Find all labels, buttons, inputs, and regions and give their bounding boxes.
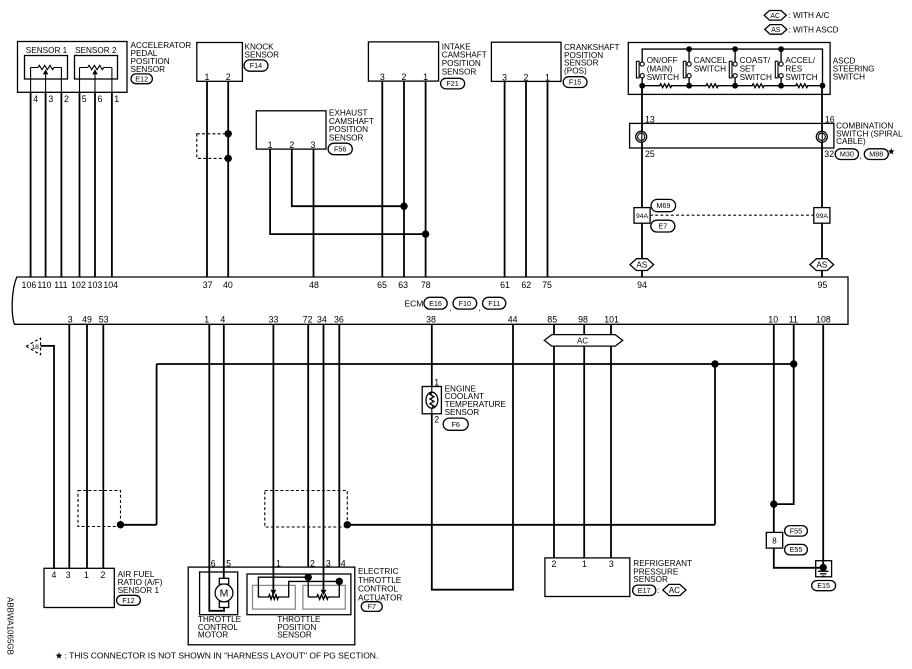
svg-text:6: 6 — [211, 558, 216, 568]
junction top bus cancel switch — [686, 46, 692, 52]
connector E7 — [651, 220, 675, 232]
wire cancel switch to resistor bus — [688, 78, 690, 86]
svg-text:94A: 94A — [636, 213, 649, 220]
svg-text:3: 3 — [502, 72, 507, 82]
svg-text:F21: F21 — [446, 79, 458, 88]
svg-text:95: 95 — [818, 280, 828, 290]
svg-text:E55: E55 — [790, 545, 803, 554]
connector F56 — [328, 143, 352, 155]
wire ASCD left output to combination switch pin13 — [641, 86, 643, 124]
connector E15 — [812, 581, 836, 591]
connector 94A box — [634, 208, 650, 224]
svg-text:M69: M69 — [656, 201, 670, 210]
svg-text:SWITCH: SWITCH — [740, 73, 772, 82]
TPS pin3 wiper arrow — [321, 590, 327, 596]
wire ECM 10 to joint connector 8 — [773, 324, 775, 532]
svg-text:10: 10 — [768, 315, 778, 325]
shield ground wire horizontal upper — [157, 363, 794, 365]
svg-text:78: 78 — [421, 280, 431, 290]
svg-text:110: 110 — [37, 280, 51, 290]
svg-text:2: 2 — [64, 94, 69, 104]
svg-text:4: 4 — [51, 570, 56, 580]
svg-text:F7: F7 — [368, 602, 376, 611]
junction shield wire to lower branch — [711, 360, 718, 367]
svg-text:1: 1 — [434, 377, 439, 387]
svg-text:2: 2 — [310, 558, 315, 568]
svg-text:F55: F55 — [790, 526, 802, 535]
svg-text:SWITCH: SWITCH — [647, 73, 679, 82]
wire motor pin6 to bottom brush — [209, 567, 224, 611]
svg-text:4: 4 — [33, 94, 38, 104]
svg-text:2: 2 — [552, 559, 557, 569]
svg-text:F6: F6 — [452, 420, 460, 429]
wire ECM 101 to refrigerant sensor pin3 — [610, 324, 612, 558]
svg-text:36: 36 — [334, 315, 344, 325]
wire ECM 36 to TPS pin4 — [338, 324, 340, 567]
svg-text:,: , — [859, 152, 861, 161]
shield ground wire horizontal to A/F shield — [121, 524, 157, 526]
svg-text:SWITCH: SWITCH — [833, 73, 865, 82]
knock sensor F14 box — [197, 43, 243, 82]
shield box knock sensor wiring — [197, 134, 228, 159]
svg-text:5: 5 — [226, 558, 231, 568]
svg-text:2: 2 — [289, 140, 294, 150]
wire AS to ECM 94 — [641, 271, 643, 278]
shield ground wire vertical left branch — [156, 364, 158, 525]
svg-text::: : — [657, 586, 659, 595]
ECM connector band — [12, 277, 848, 324]
wire ECM 33 to TPS pin1 — [272, 324, 274, 567]
svg-text:99A: 99A — [816, 213, 829, 220]
junction top bus accel/res switch — [778, 46, 784, 52]
junction on/off (main) switch resistor bus — [639, 83, 645, 89]
svg-text:25: 25 — [645, 149, 655, 159]
wire ECM 38 to coolant sensor pin1 — [431, 324, 433, 386]
svg-text:,: , — [449, 304, 451, 313]
svg-text:SENSOR: SENSOR — [442, 67, 477, 76]
junction shield to knock pin2 wire bottom — [225, 155, 232, 162]
svg-text:SWITCH: SWITCH — [785, 73, 817, 82]
svg-text:SENSOR: SENSOR — [633, 575, 668, 584]
TPS pin2 supply wire to both elements — [258, 577, 308, 597]
svg-text:F11: F11 — [488, 299, 500, 308]
potentiometer sensor 2 — [80, 65, 112, 69]
ASCD top bus wire — [642, 49, 822, 86]
svg-text:2: 2 — [402, 72, 407, 82]
svg-text:F15: F15 — [569, 78, 581, 87]
on/off (main) switch actuator bar — [636, 61, 639, 78]
throttle control motor box — [200, 572, 238, 615]
svg-text:CABLE): CABLE) — [836, 137, 866, 146]
throttle position sensor box — [247, 574, 351, 615]
svg-text:6: 6 — [98, 94, 103, 104]
potentiometer sensor 1 — [31, 65, 62, 69]
junction wires 10 and 11 — [770, 500, 777, 507]
wire off-page 18 to A/F sensor pin4 — [41, 346, 54, 568]
svg-text:SENSOR 1: SENSOR 1 — [118, 586, 160, 595]
cancel switch fixed contacts — [687, 62, 691, 66]
coast/set switch fixed contacts — [733, 62, 737, 66]
potentiometer sensor 1 wiper arrow — [43, 69, 48, 74]
svg-text:THROTTLE: THROTTLE — [358, 576, 402, 585]
wire connector 8 to ground E15 — [774, 548, 823, 568]
wire ECM 85 to refrigerant sensor pin2 — [553, 324, 555, 558]
svg-text:3: 3 — [380, 72, 385, 82]
svg-text:8: 8 — [772, 536, 777, 545]
svg-text:,: , — [479, 304, 481, 313]
connector F21 — [441, 78, 465, 89]
connector F7 — [361, 602, 382, 612]
svg-text:108: 108 — [816, 315, 831, 325]
accelerator pedal position sensor E12 outer box — [18, 42, 128, 93]
svg-text:3: 3 — [68, 315, 73, 325]
connector E55 — [785, 544, 808, 555]
svg-text:38: 38 — [426, 315, 436, 325]
shield ground wire vertical right branch — [714, 364, 716, 525]
refrigerant pressure sensor E17 box — [545, 558, 630, 597]
wire top bus to cancel switch contact — [688, 49, 690, 62]
svg-text:F14: F14 — [250, 61, 262, 70]
TPS element1 right end to pin4 line — [282, 581, 340, 597]
wire AS to ECM 95 — [821, 271, 823, 278]
accel/res switch actuator bar — [775, 61, 778, 78]
junction resistor bus right rail — [820, 83, 826, 89]
svg-text:1: 1 — [114, 94, 119, 104]
wire ECM 49 to A/F sensor pin1 — [86, 324, 88, 568]
svg-text:CANCEL: CANCEL — [694, 56, 728, 65]
svg-text:ELECTRIC: ELECTRIC — [358, 567, 399, 576]
junction cancel switch resistor bus — [686, 83, 692, 89]
svg-text:2: 2 — [226, 72, 231, 82]
wire top bus to accel/res switch contact — [780, 49, 782, 62]
svg-text:48: 48 — [309, 280, 319, 290]
potentiometer sensor 2 wiper arrow — [92, 69, 97, 74]
svg-text:44: 44 — [508, 315, 518, 325]
svg-text:SENSOR 1: SENSOR 1 — [26, 46, 68, 55]
svg-text:1: 1 — [204, 315, 209, 325]
svg-text:33: 33 — [269, 315, 279, 325]
svg-text:94: 94 — [637, 280, 647, 290]
TPS pin2 wire down to element2 resistor — [307, 577, 309, 597]
svg-text:SENSOR: SENSOR — [445, 408, 480, 417]
svg-text:AC: AC — [577, 336, 588, 345]
svg-text:103: 103 — [88, 280, 103, 290]
electric throttle control actuator F7 outer box — [188, 567, 355, 645]
svg-text:3: 3 — [609, 559, 614, 569]
wire APP pin3 to ECM 110 — [45, 74, 47, 92]
svg-text:MOTOR: MOTOR — [198, 631, 228, 640]
svg-text:37: 37 — [203, 280, 213, 290]
wire 99A to AS symbol — [821, 223, 823, 259]
ASCD steering switch outer box — [628, 43, 830, 95]
svg-text:34: 34 — [317, 315, 327, 325]
connector 99A box — [814, 208, 830, 224]
wire on/off (main) switch to resistor bus — [641, 78, 643, 86]
svg-text:18: 18 — [31, 344, 39, 351]
svg-text:98: 98 — [578, 315, 588, 325]
wire ECM 44 to coolant sensor pin2 via U-route — [432, 324, 513, 589]
ground symbol E15 — [816, 561, 832, 577]
svg-text:1: 1 — [423, 72, 428, 82]
svg-text:ON/OFF: ON/OFF — [647, 56, 678, 65]
svg-text:AS: AS — [771, 27, 781, 34]
wire 94A to AS symbol — [641, 223, 643, 259]
svg-text:F56: F56 — [334, 145, 346, 154]
option symbol AS left — [630, 259, 654, 271]
resistor between main and cancel switch — [642, 84, 689, 88]
option symbol AC for refrigerant sensor — [663, 584, 686, 595]
svg-text:3: 3 — [48, 94, 53, 104]
svg-text:M30: M30 — [840, 150, 854, 159]
coast/set switch actuator bar — [729, 61, 732, 78]
connector E12 — [131, 74, 152, 84]
junction TPS pin2 — [305, 574, 312, 581]
shield box A/F sensor wiring — [78, 491, 121, 527]
svg-text:SENSOR: SENSOR — [131, 65, 166, 74]
svg-text:CONTROL: CONTROL — [358, 585, 398, 594]
wire intake cam pin2 to ECM 63 — [403, 81, 405, 277]
accel/res switch fixed contacts — [779, 62, 783, 66]
svg-text:E16: E16 — [429, 299, 442, 308]
connector F6 — [443, 418, 468, 430]
wire intake cam pin1 to ECM 78 — [425, 81, 427, 277]
svg-text:ECM: ECM — [405, 299, 424, 309]
wire ECM 11 down and left to pin10 wire — [774, 324, 794, 504]
svg-text:4: 4 — [220, 315, 225, 325]
svg-text:F12: F12 — [122, 596, 134, 605]
resistor between coast/set and accel/res switch — [735, 84, 781, 88]
wire ECM 72 to TPS pin2 — [307, 324, 309, 567]
svg-text:2: 2 — [101, 570, 106, 580]
svg-text:SENSOR: SENSOR — [329, 134, 364, 143]
svg-text:: THIS CONNECTOR IS NOT SHOWN: : THIS CONNECTOR IS NOT SHOWN IN "HARNES… — [65, 650, 379, 660]
svg-text:1: 1 — [545, 72, 550, 82]
wire exhaust cam pin3 to ECM 48 — [313, 149, 315, 277]
svg-text:M88: M88 — [869, 150, 883, 159]
svg-text:1: 1 — [276, 558, 281, 568]
svg-text:: WITH A/C: : WITH A/C — [789, 11, 830, 20]
coolant sensor thermistor symbol — [431, 387, 433, 393]
svg-text:62: 62 — [521, 280, 531, 290]
APP sensor 1 inner box — [25, 56, 68, 80]
wire crank pin3 to ECM 61 — [504, 81, 506, 277]
wire APP pin1 to ECM 104 — [111, 68, 113, 93]
exhaust camshaft position sensor F56 box — [256, 111, 326, 149]
svg-text:COAST/: COAST/ — [740, 56, 771, 65]
air fuel ratio sensor F12 box — [44, 568, 114, 607]
wire through combination switch right — [821, 123, 823, 148]
connector F14 — [244, 60, 268, 71]
wire combination switch pin25 to connector 94A — [641, 148, 643, 208]
wire coast/set switch to resistor bus — [734, 78, 736, 86]
wire APP pin5 to ECM 102 — [79, 68, 81, 93]
svg-text:61: 61 — [500, 280, 510, 290]
wire APP pin2 to ECM 111 — [60, 68, 62, 93]
svg-text:49: 49 — [82, 315, 92, 325]
dashed link 94A to 99A — [650, 214, 814, 216]
TPS resistor element 1 — [265, 595, 281, 600]
svg-text:85: 85 — [547, 315, 557, 325]
wire crank pin2 to ECM 62 — [525, 81, 527, 277]
joint connector 8 box — [766, 532, 782, 548]
junction shield wire at ECM 11 wire — [790, 360, 797, 367]
svg-text:5: 5 — [82, 94, 87, 104]
wire APP pin4 to ECM 106 — [30, 68, 32, 93]
legend symbol AS : WITH ASCD — [765, 25, 787, 35]
svg-text:E12: E12 — [135, 74, 148, 83]
wire ECM 53 to A/F sensor pin2 — [102, 324, 104, 568]
wire knock pin2 to ECM 40 — [227, 81, 229, 277]
connector E17 — [633, 585, 656, 595]
svg-text:: WITH ASCD: : WITH ASCD — [789, 25, 839, 34]
wire top bus to coast/set switch contact — [734, 49, 736, 62]
motor M symbol — [215, 578, 233, 607]
svg-text:M: M — [220, 588, 229, 600]
combination switch spiral cable box — [630, 123, 834, 148]
svg-text:E17: E17 — [638, 586, 651, 595]
spiral cable symbol left — [636, 131, 647, 142]
svg-text:SENSOR 2: SENSOR 2 — [75, 46, 117, 55]
shield box TPS wiring — [265, 491, 348, 528]
svg-text:1: 1 — [84, 570, 89, 580]
svg-text:2: 2 — [524, 72, 529, 82]
wire crank pin1 to ECM 75 — [547, 81, 549, 277]
shield ground wire horizontal to TPS shield — [347, 524, 715, 526]
svg-text:SENSOR: SENSOR — [245, 50, 280, 59]
wire exhaust cam pin2 down — [292, 149, 404, 206]
wire ECM 108 to ground E15 — [822, 324, 824, 567]
junction accel/res switch resistor bus — [778, 83, 784, 89]
svg-text:65: 65 — [377, 280, 387, 290]
engine coolant temperature sensor F6 box — [422, 387, 441, 414]
on/off (main) switch fixed contacts — [640, 62, 644, 66]
svg-text:75: 75 — [542, 280, 552, 290]
legend symbol AC : WITH A/C — [764, 11, 786, 21]
svg-text:1: 1 — [582, 559, 587, 569]
svg-text:13: 13 — [645, 115, 655, 125]
svg-text:111: 111 — [54, 280, 67, 290]
svg-text:104: 104 — [103, 280, 118, 290]
TPS element 2 frame — [303, 585, 345, 609]
wire ECM 3 to A/F sensor pin3 — [68, 324, 70, 568]
wire intake cam pin3 to ECM 65 — [381, 81, 383, 277]
connector F12 — [117, 595, 141, 605]
crankshaft position sensor POS F15 box — [491, 42, 561, 81]
svg-text:16: 16 — [825, 115, 835, 125]
APP sensor 2 inner box — [75, 56, 118, 80]
svg-text:AS: AS — [816, 261, 827, 270]
svg-text:F10: F10 — [459, 299, 471, 308]
TPS pin1 wiper arrow — [271, 590, 277, 596]
note about connector not shown in harness layout — [55, 652, 62, 659]
connector M88 — [864, 149, 888, 160]
svg-text:2: 2 — [434, 415, 439, 425]
wire ECM 4 to throttle motor pin5 — [223, 324, 225, 567]
svg-text:11: 11 — [789, 315, 798, 325]
svg-text:63: 63 — [398, 280, 408, 290]
option symbol AC on refrigerant wires — [544, 335, 622, 347]
junction top bus coast/set switch — [732, 46, 738, 52]
svg-text:3: 3 — [311, 140, 316, 150]
svg-text:32: 32 — [824, 149, 834, 159]
option symbol AS right — [810, 259, 834, 271]
wire knock pin1 to ECM 37 — [206, 81, 208, 277]
svg-text:(POS): (POS) — [564, 67, 587, 76]
wire ASCD right output to combination switch pin16 — [821, 86, 823, 124]
svg-text:106: 106 — [22, 280, 37, 290]
junction A/F shield to ground wire — [117, 521, 124, 528]
TPS resistor element 2 — [313, 595, 332, 600]
wire motor pin5 to top brush — [223, 567, 225, 578]
wire exhaust cam pin1 down — [270, 149, 426, 234]
svg-text:AC: AC — [669, 586, 680, 595]
spiral cable symbol right — [816, 131, 827, 142]
connector M69 — [651, 199, 676, 211]
wire accel/res switch to resistor bus — [780, 78, 782, 86]
wire through combination switch left — [641, 123, 643, 148]
junction exhaust cam pin1 with intake cam pin1 wire — [422, 230, 429, 237]
connector F55 — [785, 526, 808, 537]
svg-text:102: 102 — [71, 280, 86, 290]
wire combination switch pin32 to connector 99A — [821, 148, 823, 208]
resistor between accel/res switch and right rail — [781, 84, 822, 88]
junction shield to knock pin2 wire top — [225, 130, 232, 137]
wire ECM 98 to refrigerant sensor pin1 — [583, 324, 585, 558]
svg-text:AS: AS — [636, 261, 647, 270]
svg-text:1: 1 — [205, 72, 210, 82]
svg-text:72: 72 — [303, 315, 313, 325]
TPS element 1 frame — [253, 585, 296, 609]
wire APP pin6 to ECM 103 — [94, 74, 96, 92]
svg-text:AC: AC — [770, 13, 780, 20]
svg-text:40: 40 — [223, 280, 233, 290]
svg-text:4: 4 — [341, 558, 346, 568]
svg-text:E7: E7 — [658, 222, 667, 231]
svg-text:101: 101 — [604, 315, 619, 325]
svg-text:3: 3 — [326, 558, 331, 568]
junction exhaust cam pin2 with intake cam pin2 wire — [400, 203, 407, 210]
resistor between cancel and coast/set switch — [689, 84, 735, 88]
svg-text:E15: E15 — [817, 581, 830, 590]
svg-text:ABBWA1065GB: ABBWA1065GB — [6, 597, 15, 655]
svg-text:1: 1 — [268, 140, 273, 150]
junction TPS pin4 — [336, 578, 343, 585]
junction TPS shield to ground wire — [344, 521, 351, 528]
TPS element2 right end to pin4 — [332, 581, 339, 597]
off-page connector 18 triangle — [26, 338, 41, 355]
svg-text:53: 53 — [99, 315, 109, 325]
svg-text:SWITCH: SWITCH — [694, 65, 726, 74]
connector F15 — [563, 77, 587, 88]
junction coast/set switch resistor bus — [732, 83, 738, 89]
cancel switch actuator bar — [683, 61, 686, 78]
svg-text:SENSOR: SENSOR — [277, 631, 312, 640]
wire ECM 1 to throttle motor pin6 — [208, 324, 210, 567]
intake camshaft position sensor F21 box — [368, 42, 438, 81]
connector M30 — [835, 149, 858, 160]
svg-text:ACCEL/: ACCEL/ — [785, 56, 815, 65]
wire ECM 34 to TPS pin3 — [323, 324, 325, 567]
svg-text:3: 3 — [66, 570, 71, 580]
asterisk after M88 — [888, 148, 895, 155]
